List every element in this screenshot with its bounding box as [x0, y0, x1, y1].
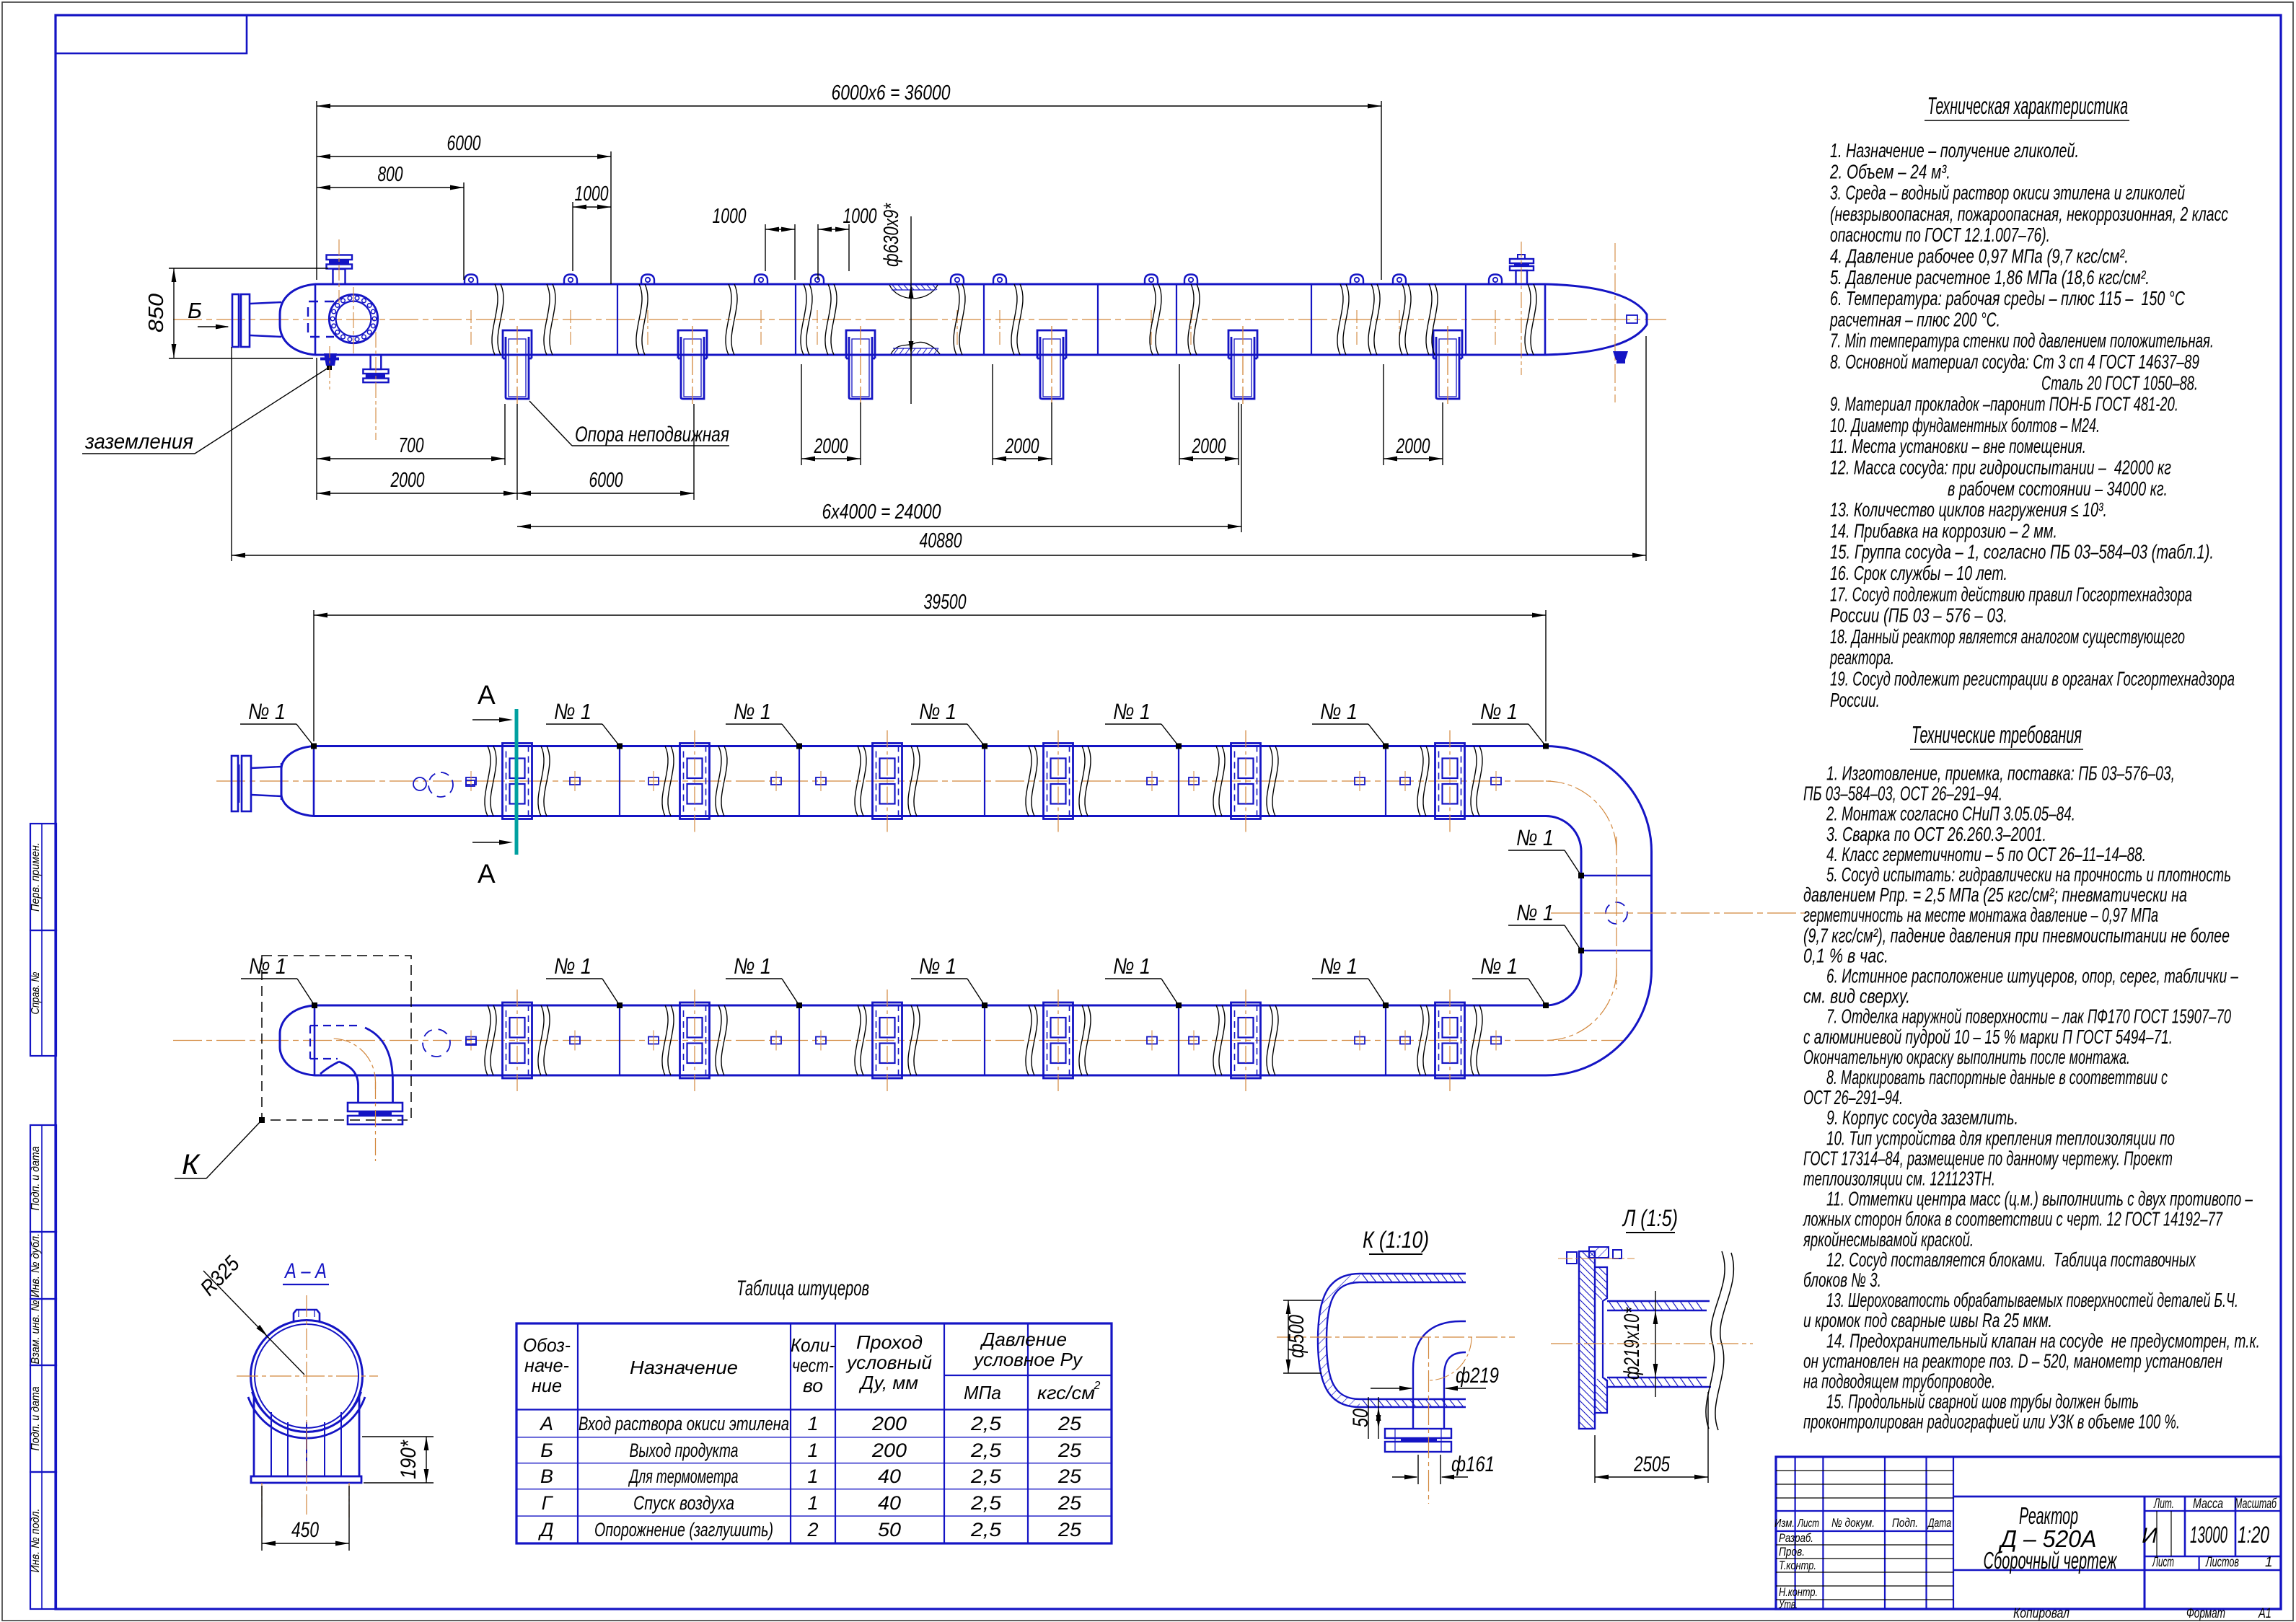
svg-text:1. Изготовление, приемка, пост: 1. Изготовление, приемка, поставка: ПБ 0…: [1826, 762, 2175, 785]
svg-text:№ 1: № 1: [554, 953, 591, 979]
svg-text:25: 25: [1057, 1440, 1082, 1461]
svg-text:И: И: [2142, 1524, 2158, 1548]
svg-text:Сборочный чертеж: Сборочный чертеж: [1984, 1547, 2118, 1574]
svg-text:№ 1: № 1: [1320, 699, 1358, 724]
svg-text:блоков № 3.: блоков № 3.: [1803, 1269, 1881, 1291]
svg-text:№ 1: № 1: [554, 699, 591, 724]
svg-text:Окончательную окраску выполнит: Окончательную окраску выполнить после мо…: [1803, 1046, 2130, 1068]
svg-text:№ 1: № 1: [248, 699, 286, 724]
svg-text:1: 1: [807, 1440, 818, 1461]
svg-text:Техническая характеристика: Техническая характеристика: [1927, 92, 2128, 119]
svg-text:в рабочем состоянии – 34000 кг: в рабочем состоянии – 34000 кг.: [1948, 477, 2168, 500]
svg-text:1000: 1000: [575, 182, 609, 206]
svg-text:во: во: [803, 1375, 823, 1396]
svg-text:200: 200: [871, 1413, 907, 1434]
svg-text:с алюминиевой пудрой 10 – 15 %: с алюминиевой пудрой 10 – 15 % марки П Г…: [1803, 1026, 2173, 1048]
svg-text:850: 850: [145, 294, 168, 332]
svg-text:Г: Г: [542, 1492, 554, 1514]
svg-text:Коли-: Коли-: [791, 1334, 835, 1356]
svg-text:К (1:10): К (1:10): [1363, 1227, 1429, 1253]
svg-text:2: 2: [1094, 1380, 1101, 1392]
svg-text:Подп. и дата: Подп. и дата: [30, 1146, 42, 1210]
svg-text:0,1 % в час.: 0,1 % в час.: [1803, 944, 1888, 966]
svg-text:Технические требования: Технические требования: [1912, 721, 2082, 748]
svg-text:Ду, мм: Ду, мм: [858, 1372, 918, 1393]
svg-text:чест-: чест-: [792, 1354, 834, 1376]
svg-text:17. Сосуд подлежит действию пр: 17. Сосуд подлежит действию правил Госго…: [1830, 583, 2192, 605]
svg-text:200: 200: [871, 1440, 907, 1461]
svg-text:2,5: 2,5: [970, 1440, 1002, 1461]
svg-text:1: 1: [2265, 1555, 2273, 1570]
svg-text:6000: 6000: [447, 132, 481, 155]
svg-text:герметичность на месте монтажа: герметичность на месте монтажа давление …: [1803, 904, 2158, 926]
svg-text:он установлен на реакторе поз.: он установлен на реакторе поз. D – 520, …: [1803, 1349, 2222, 1372]
svg-text:МПа: МПа: [964, 1382, 1001, 1403]
svg-text:4. Давление рабочее 0,97 МПа (: 4. Давление рабочее 0,97 МПа (9,7 кгс/см…: [1830, 245, 2129, 268]
svg-text:№ 1: № 1: [1516, 900, 1554, 925]
svg-text:190*: 190*: [397, 1440, 421, 1479]
svg-text:6000х6 = 36000: 6000х6 = 36000: [832, 81, 951, 105]
svg-text:№ 1: № 1: [734, 699, 771, 724]
svg-text:Опора неподвижная: Опора неподвижная: [575, 423, 729, 446]
svg-text:проконтролирован радиографией: проконтролирован радиографией или УЗК в …: [1803, 1411, 2180, 1433]
svg-text:6. Температура: рабочая среды: 6. Температура: рабочая среды – плюс 115…: [1830, 287, 2185, 309]
svg-text:№ 1: № 1: [1480, 699, 1518, 724]
svg-text:Сталь 20 ГОСТ 1050–88.: Сталь 20 ГОСТ 1050–88.: [2041, 371, 2198, 394]
svg-text:России (ПБ 03 – 576 – 03.: России (ПБ 03 – 576 – 03.: [1830, 604, 2007, 627]
svg-text:2. Монтаж согласно СНиП 3.05.0: 2. Монтаж согласно СНиП 3.05.05–84.: [1826, 803, 2075, 825]
svg-text:5. Сосуд испытать: гидравличес: 5. Сосуд испытать: гидравлически на проч…: [1826, 863, 2231, 886]
svg-text:ПБ 03–584–03, ОСТ 26–291–94.: ПБ 03–584–03, ОСТ 26–291–94.: [1803, 783, 2002, 805]
svg-text:50: 50: [878, 1519, 901, 1541]
svg-text:№ 1: № 1: [919, 699, 956, 724]
svg-text:Назначение: Назначение: [630, 1357, 738, 1378]
svg-text:Для термометра: Для термометра: [628, 1465, 739, 1487]
svg-text:13000: 13000: [2190, 1522, 2227, 1548]
svg-text:6х4000 = 24000: 6х4000 = 24000: [822, 501, 941, 524]
svg-text:25: 25: [1057, 1465, 1082, 1487]
svg-text:Подп.: Подп.: [1892, 1516, 1918, 1530]
svg-text:1:20: 1:20: [2238, 1522, 2269, 1548]
svg-text:Лист: Лист: [2152, 1555, 2174, 1570]
svg-text:ф500: ф500: [1285, 1315, 1308, 1358]
svg-text:2,5: 2,5: [970, 1465, 1002, 1487]
svg-text:№ докум.: № докум.: [1831, 1516, 1875, 1530]
svg-text:Пров.: Пров.: [1779, 1545, 1805, 1559]
svg-text:9. Корпус сосуда заземлить.: 9. Корпус сосуда заземлить.: [1826, 1106, 2018, 1129]
svg-text:1000: 1000: [843, 205, 877, 228]
svg-text:№ 1: № 1: [249, 953, 286, 979]
svg-text:ГОСТ 17314–84, размещение по д: ГОСТ 17314–84, размещение по данному чер…: [1803, 1147, 2173, 1169]
svg-text:ОСТ 26–291–94.: ОСТ 26–291–94.: [1803, 1086, 1903, 1108]
svg-text:ф630х9*: ф630х9*: [880, 203, 903, 267]
svg-text:Проход: Проход: [856, 1331, 923, 1353]
svg-text:(9,7 кгс/см²), падение давлени: (9,7 кгс/см²), падение давления при пнев…: [1803, 924, 2230, 946]
svg-text:2000: 2000: [1192, 435, 1226, 458]
svg-text:15. Группа сосуда – 1, согласн: 15. Группа сосуда – 1, согласно ПБ 03–58…: [1830, 541, 2214, 563]
svg-text:№ 1: № 1: [1320, 953, 1358, 979]
svg-text:2,5: 2,5: [970, 1519, 1002, 1541]
svg-text:№ 1: № 1: [734, 953, 771, 979]
svg-text:Д: Д: [537, 1519, 553, 1541]
svg-text:1000: 1000: [713, 205, 747, 228]
svg-text:2,5: 2,5: [970, 1413, 1002, 1434]
svg-text:2000: 2000: [390, 469, 425, 492]
svg-text:А – А: А – А: [283, 1259, 327, 1283]
svg-text:ние: ние: [532, 1375, 562, 1396]
svg-text:25: 25: [1057, 1492, 1082, 1514]
svg-text:В: В: [540, 1465, 553, 1487]
svg-text:40880: 40880: [920, 529, 962, 552]
svg-text:40: 40: [878, 1492, 901, 1514]
svg-text:13. Шероховатость обрабатываем: 13. Шероховатость обрабатываемых поверхн…: [1826, 1289, 2238, 1311]
svg-text:16. Срок службы – 10 лет.: 16. Срок службы – 10 лет.: [1830, 562, 2007, 584]
svg-text:Лист: Лист: [1797, 1517, 1819, 1530]
svg-text:25: 25: [1057, 1519, 1082, 1541]
svg-text:Утв.: Утв.: [1778, 1597, 1798, 1611]
svg-text:11. Места установки – вне поме: 11. Места установки – вне помещения.: [1830, 435, 2086, 457]
svg-text:Подп. и дата: Подп. и дата: [30, 1386, 42, 1450]
svg-text:Обоз-: Обоз-: [523, 1334, 571, 1356]
svg-text:9. Материал прокладок –паронит: 9. Материал прокладок –паронит ПОН-Б ГОС…: [1830, 393, 2178, 415]
svg-text:3. Среда – водный раствор окис: 3. Среда – водный раствор окиси этилена …: [1830, 182, 2185, 204]
svg-text:см. вид сверху.: см. вид сверху.: [1803, 985, 1910, 1008]
svg-text:15. Продольный сварной шов тру: 15. Продольный сварной шов трубы должен …: [1826, 1390, 2139, 1413]
svg-text:3. Сварка по ОСТ 26.260.3–2001: 3. Сварка по ОСТ 26.260.3–2001.: [1826, 823, 2046, 845]
svg-text:Изм.: Изм.: [1774, 1517, 1795, 1530]
svg-text:8. Основной материал сосуда: С: 8. Основной материал сосуда: Ст 3 сп 4 Г…: [1830, 351, 2199, 373]
svg-text:Взам. инв. №: Взам. инв. №: [30, 1300, 42, 1364]
svg-text:Дата: Дата: [1927, 1516, 1951, 1530]
svg-text:давлением Рпр. = 2,5 МПа (25 к: давлением Рпр. = 2,5 МПа (25 кгс/см²; пн…: [1803, 883, 2187, 906]
svg-text:11. Отметки центра масс (ц.м.): 11. Отметки центра масс (ц.м.) выполниит…: [1826, 1188, 2253, 1210]
svg-text:Инв. № дубл.: Инв. № дубл.: [30, 1233, 42, 1297]
svg-text:заземления: заземления: [84, 430, 193, 454]
svg-text:Спуск воздуха: Спуск воздуха: [633, 1492, 734, 1514]
svg-text:№ 1: № 1: [1113, 699, 1151, 724]
svg-text:7. Мin температура стенки под: 7. Мin температура стенки под давлением …: [1830, 330, 2214, 352]
svg-text:1: 1: [807, 1492, 818, 1514]
svg-text:на подводящем трубопроводе.: на подводящем трубопроводе.: [1803, 1370, 1995, 1393]
svg-text:14. Прибавка на коррозию – 2 м: 14. Прибавка на коррозию – 2 мм.: [1830, 519, 2057, 542]
svg-text:Перв. примен.: Перв. примен.: [30, 842, 42, 912]
svg-text:(невзрывоопасная, пожароопасна: (невзрывоопасная, пожароопасная, некорро…: [1830, 203, 2228, 225]
svg-text:2000: 2000: [814, 435, 848, 458]
svg-text:40: 40: [878, 1465, 901, 1487]
svg-text:яркойнесмывамой краской.: яркойнесмывамой краской.: [1803, 1228, 1974, 1251]
svg-text:А: А: [539, 1413, 553, 1434]
svg-text:2000: 2000: [1396, 435, 1430, 458]
svg-text:Справ. №: Справ. №: [30, 971, 42, 1014]
svg-text:1: 1: [807, 1465, 818, 1487]
svg-text:Инв. № подл.: Инв. № подл.: [30, 1509, 42, 1573]
svg-text:Б: Б: [188, 298, 202, 323]
svg-text:Листов: Листов: [2205, 1555, 2239, 1570]
svg-text:расчетная – плюс 200 °С.: расчетная – плюс 200 °С.: [1829, 308, 2000, 330]
svg-text:условный: условный: [845, 1352, 932, 1373]
svg-text:700: 700: [399, 434, 424, 457]
svg-text:Масса: Масса: [2193, 1497, 2223, 1512]
svg-text:6. Истинное расположение штуце: 6. Истинное расположение штуцеров, опор,…: [1826, 965, 2238, 987]
svg-text:2000: 2000: [1005, 435, 1039, 458]
svg-text:Вход раствора окиси этилена: Вход раствора окиси этилена: [579, 1413, 789, 1434]
svg-text:наче-: наче-: [524, 1354, 569, 1376]
svg-text:Лит.: Лит.: [2153, 1497, 2174, 1512]
svg-text:2,5: 2,5: [970, 1492, 1002, 1514]
svg-text:А1: А1: [2258, 1606, 2271, 1621]
svg-text:Давление: Давление: [980, 1328, 1067, 1350]
svg-text:А: А: [478, 859, 496, 889]
svg-text:К: К: [182, 1149, 201, 1181]
svg-text:13. Количество циклов нагружен: 13. Количество циклов нагружения ≤ 10³.: [1830, 498, 2107, 521]
svg-text:№ 1: № 1: [1480, 953, 1518, 979]
svg-text:№ 1: № 1: [1113, 953, 1151, 979]
svg-text:18. Данный реактор является ан: 18. Данный реактор является аналогом сущ…: [1830, 625, 2185, 648]
svg-text:№ 1: № 1: [1516, 825, 1554, 850]
svg-text:2505: 2505: [1633, 1453, 1670, 1476]
svg-text:России.: России.: [1830, 689, 1880, 711]
svg-text:ф219: ф219: [1456, 1364, 1499, 1388]
svg-text:кгс/см: кгс/см: [1037, 1382, 1095, 1403]
svg-text:8. Маркировать паспортные данн: 8. Маркировать паспортные данные в соотв…: [1826, 1066, 2168, 1088]
svg-text:Б: Б: [540, 1440, 553, 1461]
svg-text:Опорожнение (заглушить): Опорожнение (заглушить): [594, 1519, 773, 1541]
svg-text:7. Отделка наружной поверхност: 7. Отделка наружной поверхности – лак ПФ…: [1826, 1005, 2231, 1028]
svg-text:Л (1:5): Л (1:5): [1622, 1205, 1678, 1231]
svg-text:12. Масса сосуда: при гидроисп: 12. Масса сосуда: при гидроиспытании – 4…: [1830, 457, 2171, 479]
svg-text:реактора.: реактора.: [1829, 646, 1894, 669]
svg-text:Таблица штуцеров: Таблица штуцеров: [736, 1277, 869, 1300]
svg-text:Т.контр.: Т.контр.: [1779, 1559, 1816, 1572]
svg-text:10. Тип устройства для креплен: 10. Тип устройства для крепления теплоиз…: [1826, 1127, 2175, 1149]
svg-text:условное Ру: условное Ру: [972, 1349, 1083, 1370]
svg-text:5. Давление расчетное 1,86 МПа: 5. Давление расчетное 1,86 МПа (18,6 кгс…: [1830, 266, 2150, 288]
svg-text:№ 1: № 1: [919, 953, 956, 979]
svg-text:12. Сосуд поставляется блоками: 12. Сосуд поставляется блоками. Таблица …: [1826, 1248, 2196, 1271]
svg-text:6000: 6000: [589, 469, 623, 492]
svg-text:опасности по ГОСТ 12.1.007–76): опасности по ГОСТ 12.1.007–76).: [1830, 224, 2050, 246]
svg-text:ф161: ф161: [1451, 1453, 1495, 1476]
svg-text:1: 1: [807, 1413, 818, 1434]
svg-text:А: А: [478, 680, 496, 710]
svg-text:теплоизоляции см. 121123ТН.: теплоизоляции см. 121123ТН.: [1803, 1168, 1995, 1190]
svg-text:800: 800: [378, 163, 403, 186]
svg-text:39500: 39500: [924, 591, 967, 614]
svg-text:50: 50: [1349, 1409, 1373, 1427]
svg-text:2. Объем – 24 м³.: 2. Объем – 24 м³.: [1829, 160, 1950, 182]
svg-text:25: 25: [1057, 1413, 1082, 1434]
svg-text:Формат: Формат: [2186, 1606, 2225, 1621]
svg-text:19. Сосуд подлежит регистрации: 19. Сосуд подлежит регистрации в органах…: [1830, 668, 2235, 690]
svg-text:1. Назначение – получение глик: 1. Назначение – получение гликолей.: [1830, 139, 2079, 162]
svg-text:Разраб.: Разраб.: [1779, 1531, 1813, 1545]
svg-text:Выход продукта: Выход продукта: [630, 1440, 739, 1461]
svg-text:Копировал: Копировал: [2013, 1606, 2070, 1621]
svg-text:Масштаб: Масштаб: [2235, 1497, 2277, 1512]
svg-text:450: 450: [291, 1518, 319, 1542]
svg-text:4. Класс герметичноти – 5 по О: 4. Класс герметичноти – 5 по ОСТ 26–11–1…: [1826, 843, 2146, 865]
svg-text:10. Диаметр фундаментных болто: 10. Диаметр фундаментных болтов – М24.: [1830, 414, 2100, 436]
svg-text:2: 2: [806, 1519, 818, 1541]
svg-text:14. Предохранительный клапан н: 14. Предохранительный клапан на сосуде н…: [1826, 1329, 2260, 1352]
svg-text:и кромок под сварные швы Ra 25: и кромок под сварные швы Ra 25 мкм.: [1803, 1309, 2052, 1331]
svg-text:ложных сторон блока в соответс: ложных сторон блока в соответствии с чер…: [1803, 1208, 2223, 1230]
